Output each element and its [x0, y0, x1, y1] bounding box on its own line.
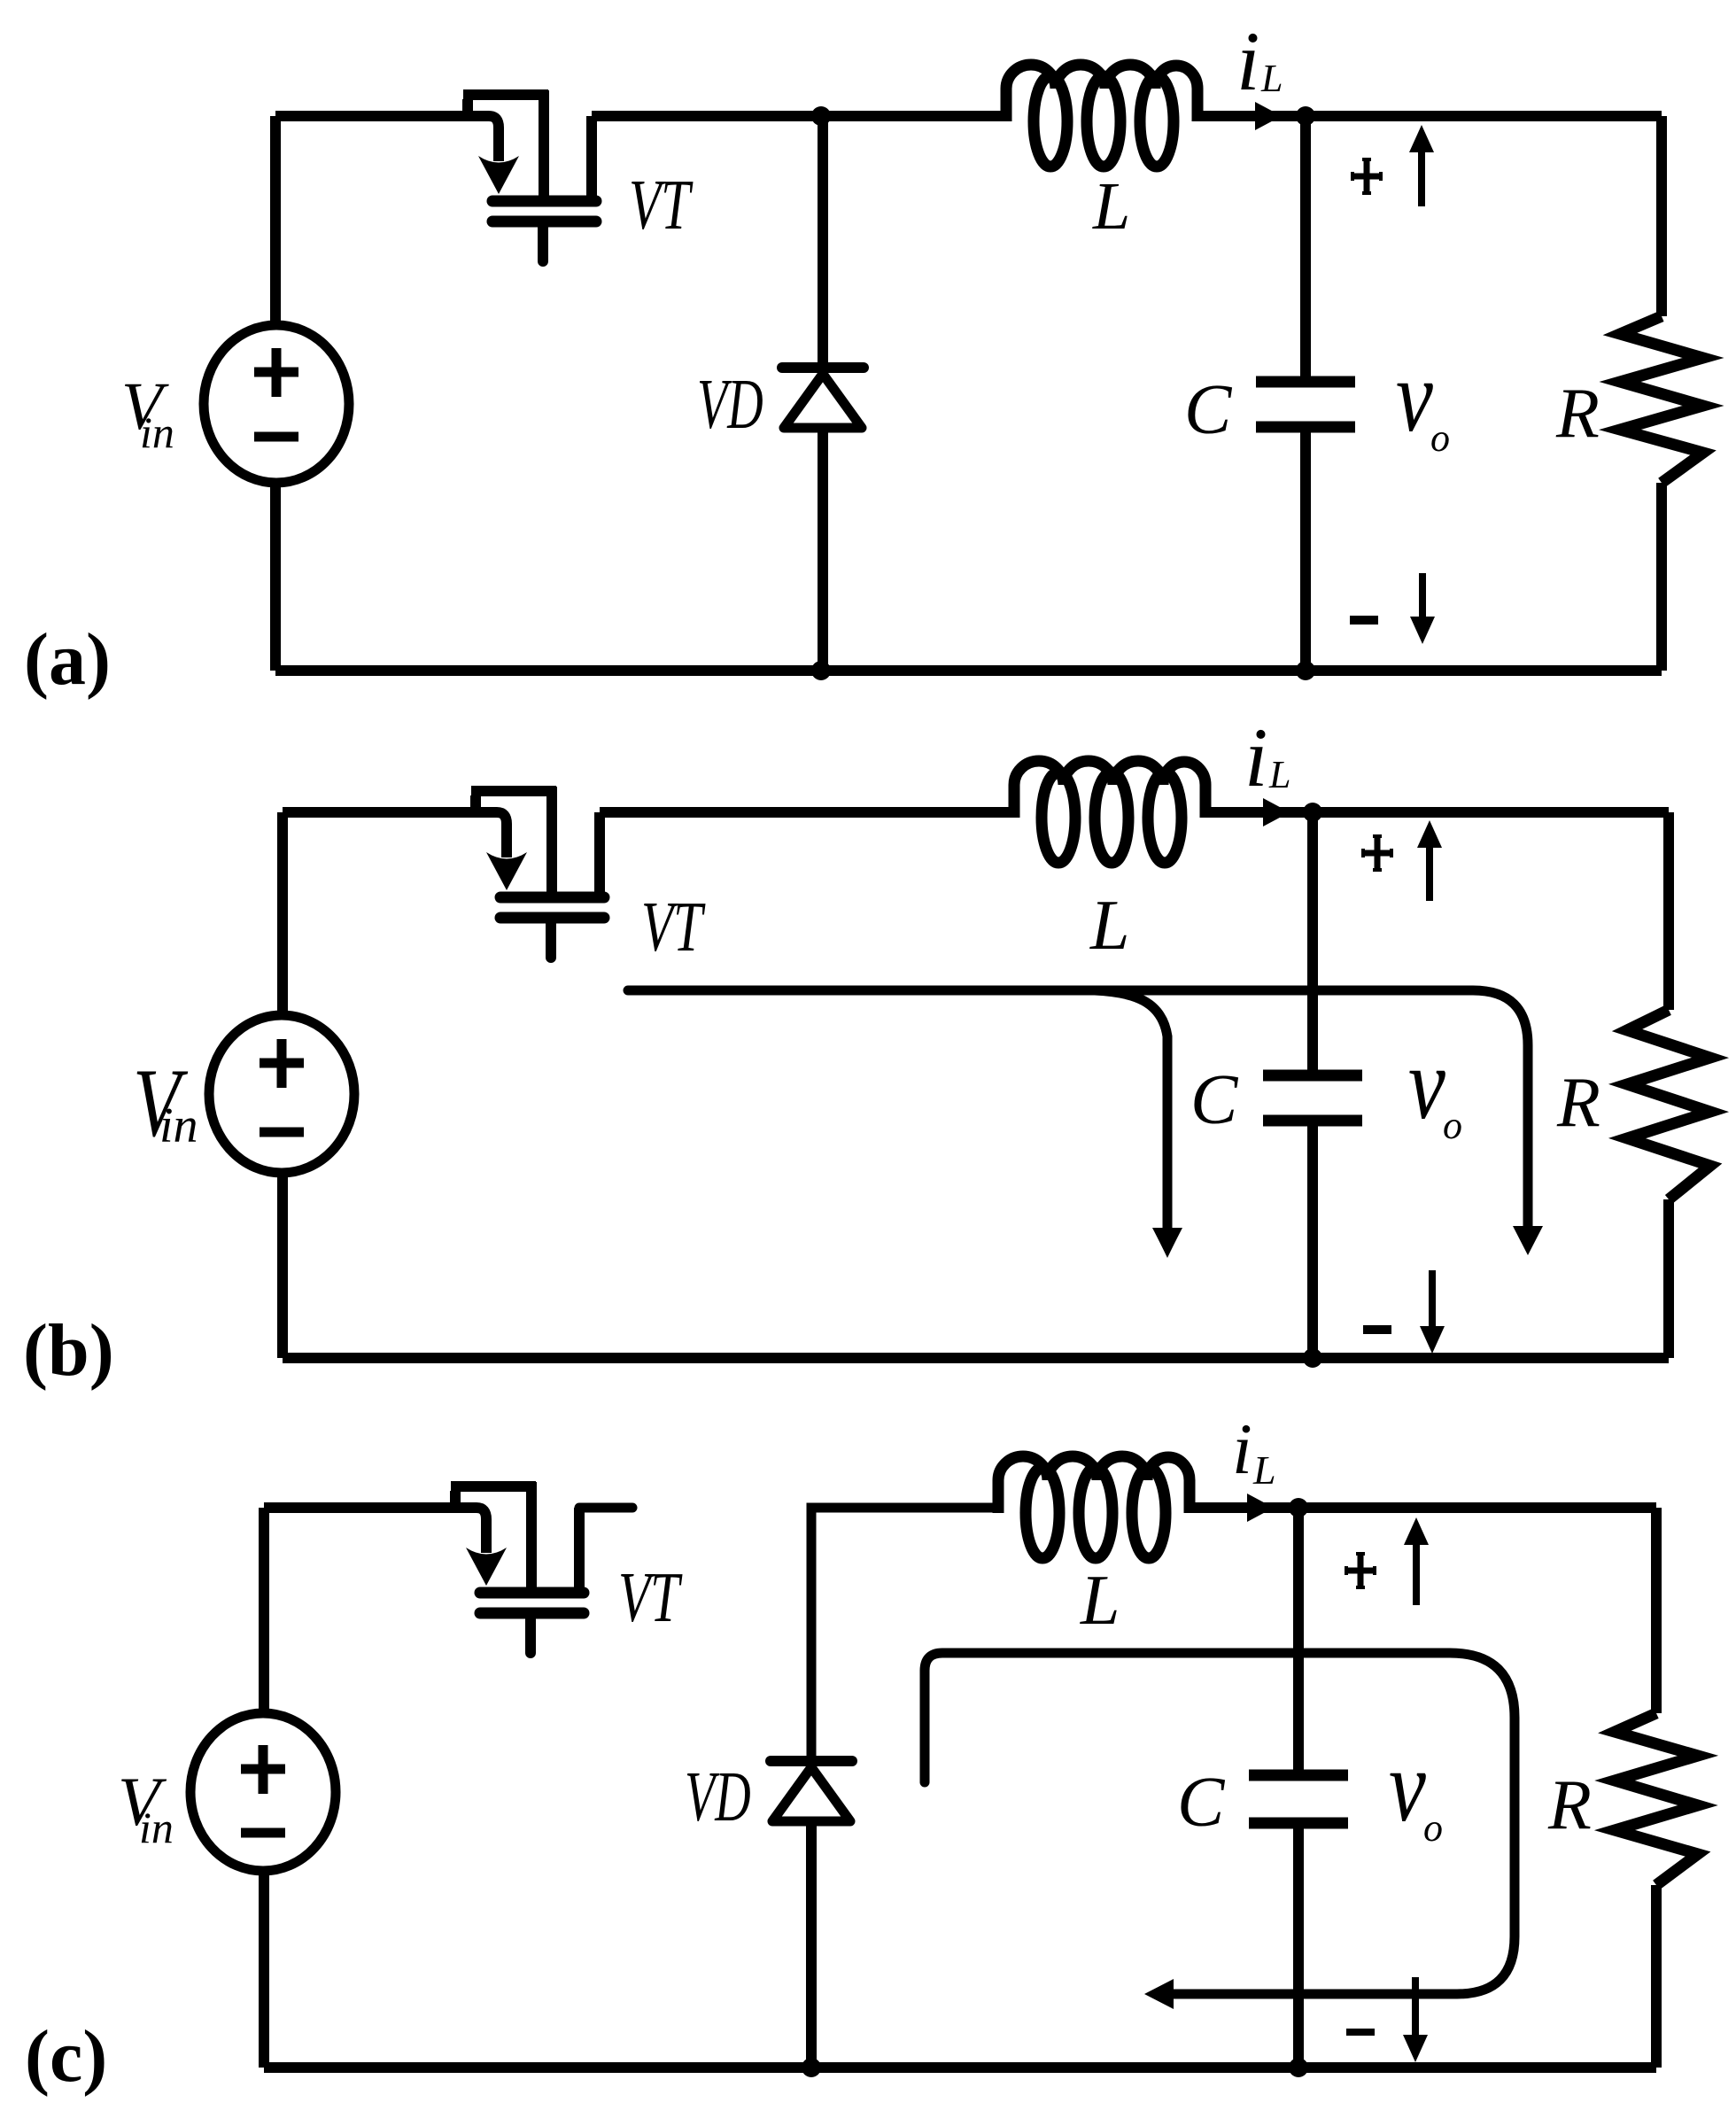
wire node to R branch (b) — [1313, 807, 1669, 818]
transistor VT — [451, 1482, 584, 1653]
wire node to R branch (a) — [1306, 111, 1662, 121]
svg-text:C: C — [1184, 371, 1233, 449]
plus sign — [1346, 1554, 1375, 1587]
svg-text:VD: VD — [685, 1757, 751, 1835]
current path branch arrow (b) — [1095, 990, 1167, 1231]
wire R to bottom rail (a) — [1656, 483, 1667, 671]
wire node to C (b) — [1307, 812, 1318, 1070]
minus sign — [1346, 2029, 1375, 2036]
svg-text:L: L — [1252, 1447, 1276, 1493]
minus sign — [1350, 616, 1378, 625]
wire Vin top lead (a) — [270, 116, 281, 328]
capacitor C plates — [1256, 382, 1355, 427]
wire top-right down to R (c) — [1651, 1508, 1662, 1713]
resistor R — [1615, 1713, 1698, 1885]
wire node to R branch (c) — [1298, 1502, 1656, 1513]
diode VD — [771, 1761, 852, 1821]
down arrow (v_o polarity) — [1420, 1270, 1445, 1354]
svg-text:i: i — [1244, 710, 1267, 804]
svg-text:v: v — [1408, 1027, 1445, 1140]
down arrow (v_o polarity) — [1410, 573, 1435, 644]
wire R to bottom rail (c) — [1651, 1885, 1662, 2068]
resistor R — [1627, 1010, 1710, 1199]
wire R to bottom rail (b) — [1663, 1199, 1674, 1358]
wire C to bottom rail (c) — [1293, 1828, 1304, 2068]
wire L to node (a) — [1197, 111, 1306, 121]
svg-text:(b): (b) — [23, 1309, 114, 1392]
down arrow (v_o polarity) — [1403, 1977, 1428, 2062]
transistor VT — [471, 787, 604, 958]
node VT-VD junction (a) — [811, 106, 831, 126]
svg-text:VD: VD — [697, 364, 763, 443]
svg-text:R: R — [1555, 375, 1600, 453]
node output node bottom (c) — [1289, 2058, 1308, 2077]
wire top-left (b) — [283, 807, 492, 818]
current path line (b) — [628, 990, 1528, 1231]
bottom rail (a) — [275, 665, 1662, 676]
wire VT to L (b) — [600, 807, 1014, 818]
resistor R — [1620, 316, 1703, 483]
wire Vin bottom lead (a) — [270, 481, 281, 671]
wire Vin top lead (c) — [259, 1508, 269, 1714]
svg-text:C: C — [1190, 1061, 1239, 1139]
svg-text:o: o — [1430, 416, 1450, 460]
inductor L coil — [1006, 65, 1197, 167]
wire Vin top lead (b) — [277, 812, 288, 1016]
wire VD to bottom rail (c) — [806, 1821, 817, 2068]
minus sign — [1363, 1325, 1391, 1334]
current arrowhead left-pointing (c) — [1144, 1979, 1174, 2009]
svg-text:v: v — [1389, 1729, 1426, 1843]
svg-text:(a): (a) — [24, 618, 111, 701]
node output node top (c) — [1289, 1498, 1308, 1517]
up arrow (v_o polarity) — [1417, 820, 1442, 901]
transistor VT — [463, 90, 596, 261]
svg-text:v: v — [1396, 339, 1433, 453]
wire C to bottom rail (b) — [1307, 1126, 1318, 1358]
svg-text:L: L — [1268, 753, 1290, 796]
svg-text:in: in — [159, 1098, 198, 1153]
inductor L coil — [998, 1456, 1190, 1558]
svg-text:i: i — [1232, 1408, 1252, 1489]
wire L to node (c) — [1190, 1502, 1298, 1513]
node VD bottom junction (a) — [811, 661, 831, 680]
wire top-left (c) — [264, 1502, 471, 1513]
i_L arrowhead — [1263, 798, 1290, 826]
svg-text:(c): (c) — [25, 2015, 107, 2098]
svg-text:L: L — [1092, 169, 1130, 244]
wire top-right down to R (a) — [1656, 116, 1667, 316]
capacitor C plates — [1263, 1075, 1362, 1121]
svg-text:L: L — [1260, 57, 1283, 100]
wire stub from VT (c) — [579, 1503, 632, 1513]
up arrow (v_o polarity) — [1409, 125, 1434, 206]
wire L to node (b) — [1205, 807, 1313, 818]
svg-text:VT: VT — [618, 1559, 683, 1638]
bottom rail (c) — [264, 2062, 1656, 2073]
plus sign — [1363, 836, 1391, 870]
node VD bottom junction (c) — [802, 2058, 821, 2077]
svg-text:VT: VT — [629, 167, 694, 245]
svg-text:i: i — [1236, 14, 1259, 108]
node output node top (a) — [1296, 106, 1315, 126]
wire top-left (a) — [275, 111, 484, 121]
wire node to C (a) — [1300, 116, 1311, 376]
wire VT to L (a) — [592, 111, 1006, 121]
svg-text:in: in — [139, 1803, 174, 1852]
wire top-right down to R (b) — [1663, 812, 1674, 1010]
inductor L coil — [1014, 761, 1205, 863]
svg-text:o: o — [1423, 1806, 1443, 1850]
current arrowhead left (b) — [1153, 1229, 1182, 1258]
wire Vin bottom lead (c) — [259, 1870, 269, 2068]
svg-text:L: L — [1089, 887, 1130, 965]
voltage source Vin — [209, 1015, 354, 1173]
current arrowhead right (b) — [1513, 1226, 1543, 1255]
svg-text:C: C — [1177, 1764, 1226, 1842]
capacitor C plates — [1249, 1775, 1348, 1823]
wire node to VD (a) — [818, 116, 828, 368]
svg-text:R: R — [1547, 1766, 1592, 1844]
voltage source Vin — [190, 1713, 336, 1871]
bottom rail (b) — [283, 1353, 1669, 1363]
node output node top (b) — [1303, 803, 1322, 822]
wire C to bottom rail (a) — [1300, 432, 1311, 671]
svg-text:o: o — [1443, 1104, 1462, 1147]
current path loop (c) — [925, 1653, 1515, 1994]
wire Vin bottom lead (b) — [277, 1171, 288, 1358]
i_L arrowhead — [1255, 102, 1282, 130]
svg-text:R: R — [1556, 1064, 1600, 1142]
wire node to C (c) — [1293, 1508, 1304, 1770]
wire VD riser and corner (c) — [811, 1508, 998, 1757]
plus sign — [1352, 159, 1381, 193]
up arrow (v_o polarity) — [1404, 1517, 1429, 1605]
node output node bottom (b) — [1303, 1348, 1322, 1368]
svg-text:L: L — [1080, 1562, 1120, 1640]
diode VD — [782, 368, 864, 428]
svg-text:in: in — [140, 407, 174, 457]
wire VD to bottom rail (a) — [818, 428, 828, 671]
svg-text:VT: VT — [641, 888, 706, 967]
i_L arrowhead — [1247, 1494, 1274, 1522]
voltage source Vin — [204, 325, 349, 483]
node output node bottom (a) — [1296, 661, 1315, 680]
